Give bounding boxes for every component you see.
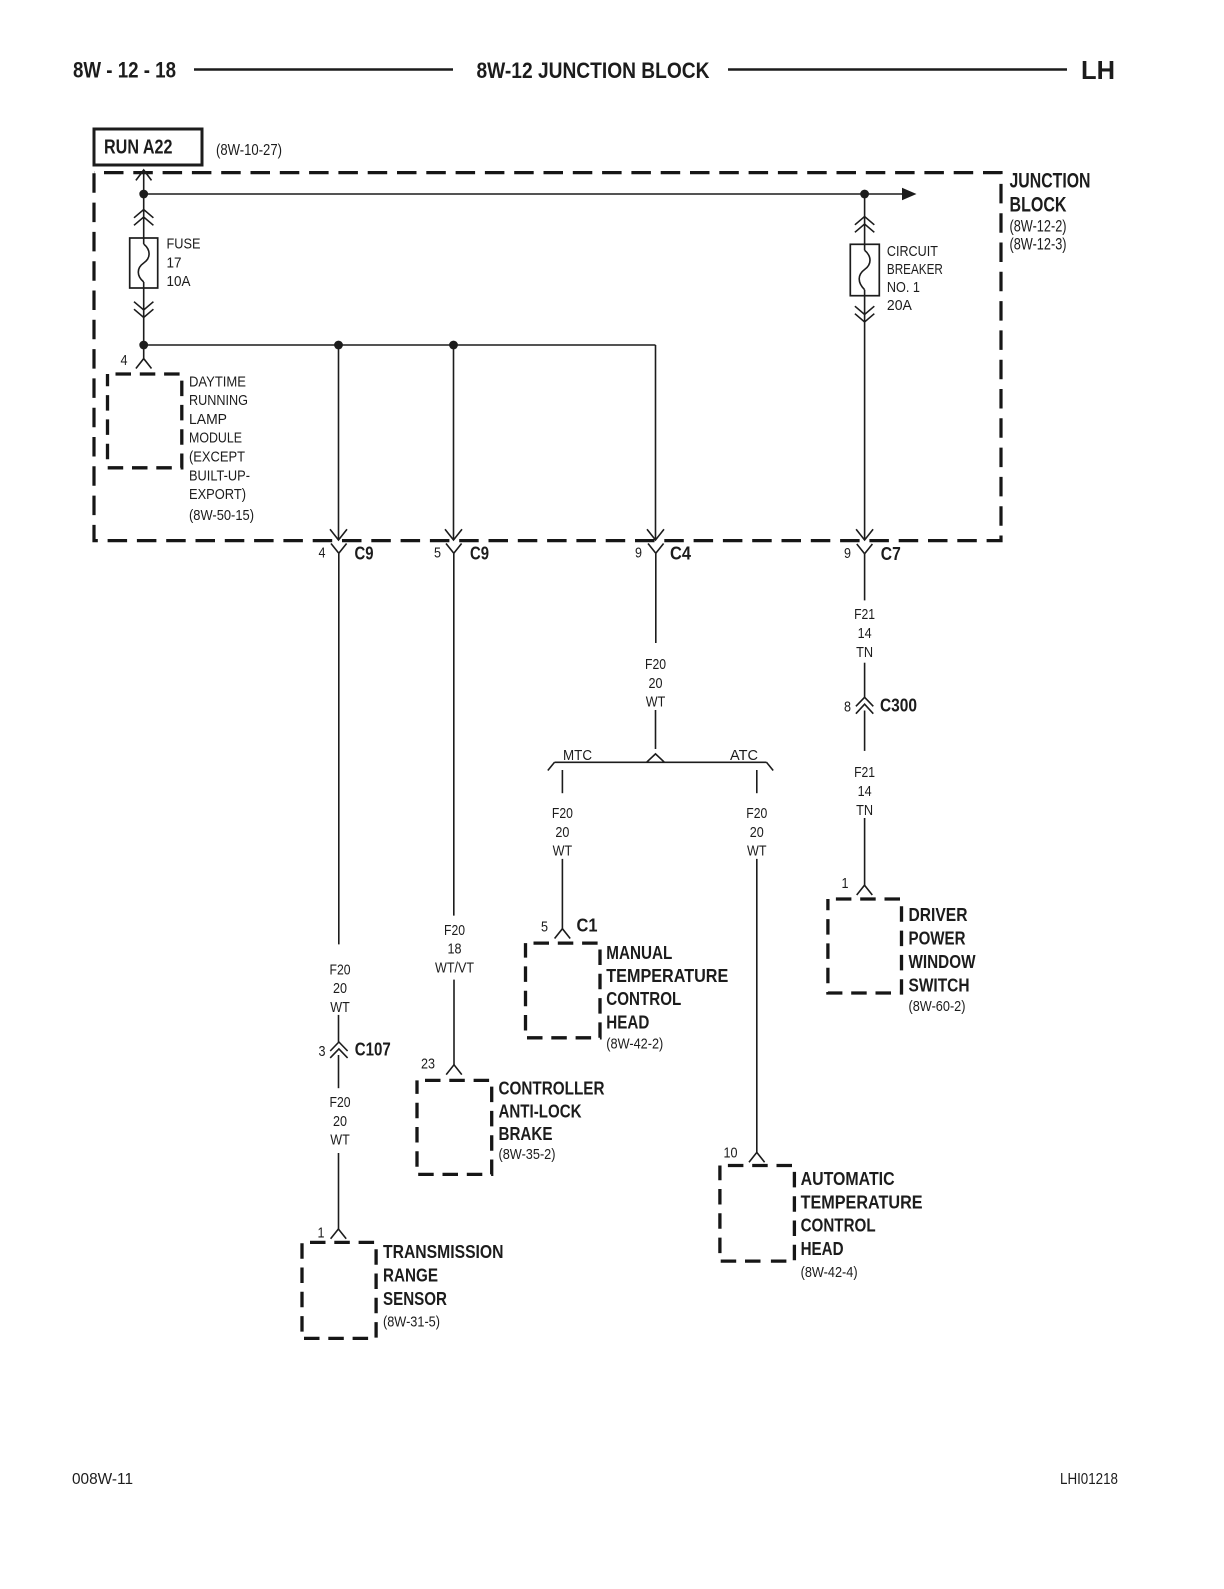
wire col2 below C107 (338, 1055, 340, 1088)
pin 10 caret into ATCH (724, 1145, 765, 1163)
svg-text:C107: C107 (355, 1039, 391, 1060)
svg-text:(8W-31-5): (8W-31-5) (383, 1313, 440, 1330)
svg-text:10: 10 (724, 1145, 738, 1162)
svg-text:WT/VT: WT/VT (435, 959, 474, 976)
svg-text:BRAKE: BRAKE (499, 1123, 553, 1144)
svg-text:JUNCTION: JUNCTION (1010, 169, 1091, 193)
svg-text:DAYTIME: DAYTIME (189, 373, 246, 390)
svg-text:F20: F20 (552, 805, 573, 822)
junction block label (1010, 169, 1091, 254)
svg-text:8W - 12 - 18: 8W - 12 - 18 (73, 58, 176, 83)
svg-text:4: 4 (121, 352, 128, 369)
svg-text:DRIVER: DRIVER (909, 904, 968, 925)
wire col4 drop inside block (647, 345, 664, 540)
wire label F20 20 WT (MTC) (552, 805, 573, 860)
svg-text:C1: C1 (577, 915, 598, 936)
svg-text:BLOCK: BLOCK (1010, 192, 1067, 216)
module DRL (daytime running lamp) (108, 373, 255, 524)
svg-text:NO. 1: NO. 1 (887, 279, 920, 296)
wire col3 into CAB (453, 980, 455, 1065)
svg-text:POWER: POWER (909, 928, 966, 949)
svg-text:20: 20 (333, 1113, 347, 1130)
node at fuse top (139, 190, 148, 199)
svg-text:MTC: MTC (563, 747, 592, 764)
svg-text:RUNNING: RUNNING (189, 392, 248, 409)
splice split MTC/ATC (548, 747, 773, 771)
svg-text:(8W-42-4): (8W-42-4) (801, 1264, 858, 1281)
header (73, 55, 1115, 85)
controller anti-lock brake (417, 1077, 605, 1174)
feed box RUN A22 (94, 129, 282, 165)
svg-text:WT: WT (553, 843, 573, 860)
wire col3 drop inside block (445, 345, 462, 540)
wire label F20 20 WT (col4) (645, 656, 666, 710)
wire col3 stem below C9 (453, 553, 455, 915)
svg-text:8: 8 (844, 699, 851, 716)
wire label F20 18 WT/VT (435, 922, 474, 977)
svg-text:RUN A22: RUN A22 (104, 136, 173, 159)
svg-text:20: 20 (555, 824, 569, 841)
automatic temperature control head (720, 1166, 923, 1281)
fuse 17 10A (130, 236, 201, 359)
wire MTC branch drop (561, 770, 563, 793)
svg-text:20A: 20A (887, 297, 912, 314)
wire col5 between label and C300 (864, 663, 866, 698)
svg-text:TEMPERATURE: TEMPERATURE (801, 1191, 923, 1212)
connector 4 C9 (319, 543, 374, 564)
svg-text:4: 4 (319, 545, 326, 562)
wire col2 between label and C107 (338, 1015, 340, 1042)
wire ATC into ATCH (756, 859, 758, 1153)
wire col2 into TRS (338, 1153, 340, 1229)
svg-text:1: 1 (842, 875, 849, 892)
svg-text:23: 23 (421, 1056, 435, 1073)
node col2 (334, 341, 343, 350)
wire label F21 14 TN (lower) (854, 764, 875, 819)
svg-text:LAMP: LAMP (189, 411, 227, 428)
svg-text:CIRCUIT: CIRCUIT (887, 243, 938, 260)
svg-text:TEMPERATURE: TEMPERATURE (606, 965, 728, 986)
svg-text:9: 9 (635, 545, 642, 562)
wire col2 drop inside block (330, 345, 347, 540)
svg-text:C9: C9 (470, 543, 489, 564)
connector 9 C7 (844, 543, 901, 564)
svg-text:(8W-50-15): (8W-50-15) (189, 507, 254, 524)
wire col2 stem below C9 (338, 553, 340, 944)
svg-text:1: 1 (318, 1225, 325, 1242)
svg-text:C4: C4 (670, 543, 692, 564)
pin 5 C1 caret (541, 915, 598, 939)
svg-text:HEAD: HEAD (801, 1238, 844, 1259)
svg-text:20: 20 (750, 824, 764, 841)
wire label F21 14 TN (upper) (854, 606, 875, 661)
footer (72, 1471, 1118, 1488)
wire col4 into splice (655, 710, 657, 749)
svg-text:17: 17 (167, 254, 182, 271)
fuse 17 top terminal chevrons (134, 210, 153, 226)
connector 3 C107 (in-line chevrons) (319, 1039, 391, 1061)
svg-text:(8W-35-2): (8W-35-2) (499, 1146, 556, 1163)
svg-text:LHI01218: LHI01218 (1060, 1471, 1118, 1488)
svg-text:8W-12 JUNCTION BLOCK: 8W-12 JUNCTION BLOCK (477, 58, 710, 83)
manual temperature control head (526, 942, 729, 1053)
svg-text:CONTROLLER: CONTROLLER (499, 1077, 605, 1098)
svg-text:5: 5 (434, 545, 441, 562)
svg-text:WT: WT (646, 693, 666, 710)
wire ATC branch drop (756, 770, 758, 793)
svg-text:F20: F20 (444, 922, 465, 939)
svg-text:F20: F20 (330, 961, 351, 978)
svg-text:14: 14 (858, 625, 872, 642)
svg-text:FUSE: FUSE (167, 236, 201, 253)
pin 1 caret into DPWS (842, 875, 873, 895)
svg-text:RANGE: RANGE (383, 1264, 438, 1285)
pin 23 and caret into CAB (421, 1056, 462, 1075)
connector 9 C4 (635, 543, 692, 564)
svg-text:CONTROL: CONTROL (801, 1215, 876, 1236)
svg-text:20: 20 (649, 675, 663, 692)
wire: run a22 vertical drop at x=143.7 (136, 170, 152, 244)
wire label F20 20 WT (col2 upper) (330, 961, 351, 1016)
wire col5 below C300 (864, 711, 866, 751)
svg-text:WT: WT (330, 999, 350, 1016)
svg-text:F21: F21 (854, 606, 875, 623)
svg-text:(8W-12-3): (8W-12-3) (1010, 236, 1067, 254)
svg-text:14: 14 (858, 783, 872, 800)
svg-text:TN: TN (856, 644, 873, 661)
wire col4 stem below C4 (655, 553, 657, 643)
pin 1 and caret into TRS (318, 1225, 347, 1242)
svg-text:18: 18 (448, 941, 462, 958)
wire MTC into C1 (561, 859, 563, 929)
wire label F20 20 WT (col2 lower) (330, 1094, 351, 1149)
svg-text:5: 5 (541, 919, 548, 936)
wire label F20 20 WT (ATC) (746, 805, 767, 860)
svg-text:10A: 10A (167, 273, 191, 290)
junction block dashed boundary (94, 173, 1001, 541)
svg-text:(8W-60-2): (8W-60-2) (909, 998, 966, 1015)
svg-text:TRANSMISSION: TRANSMISSION (383, 1241, 504, 1262)
svg-text:SWITCH: SWITCH (909, 975, 970, 996)
node above DRL (139, 341, 148, 350)
connector 8 C300 (844, 695, 917, 716)
wire: top bus from fuse node to breaker node (144, 188, 917, 200)
svg-text:C9: C9 (355, 543, 374, 564)
svg-text:SENSOR: SENSOR (383, 1288, 447, 1309)
wire breaker drop at x=864.6 (864, 194, 866, 250)
svg-text:ANTI-LOCK: ANTI-LOCK (499, 1100, 583, 1121)
svg-text:(EXCEPT: (EXCEPT (189, 449, 245, 466)
svg-text:WT: WT (747, 843, 767, 860)
svg-text:AUTOMATIC: AUTOMATIC (801, 1168, 895, 1189)
svg-text:C7: C7 (881, 543, 901, 564)
svg-text:3: 3 (319, 1043, 326, 1060)
driver power window switch (828, 899, 976, 1015)
svg-text:WT: WT (330, 1132, 350, 1149)
svg-text:008W-11: 008W-11 (72, 1471, 133, 1488)
svg-text:HEAD: HEAD (606, 1011, 649, 1032)
svg-text:BUILT-UP-: BUILT-UP- (189, 467, 250, 484)
node at breaker top (860, 190, 869, 199)
svg-text:TN: TN (856, 802, 873, 819)
svg-text:9: 9 (844, 545, 851, 562)
svg-text:(8W-10-27): (8W-10-27) (216, 142, 282, 159)
wire col5 stem below C7 (864, 554, 866, 601)
breaker bottom terminals (855, 306, 874, 540)
breaker top terminals (855, 217, 874, 233)
svg-text:F20: F20 (645, 656, 666, 673)
svg-text:ATC: ATC (730, 747, 758, 764)
fuse bottom terminals (chevrons down) (134, 302, 153, 318)
svg-text:EXPORT): EXPORT) (189, 486, 246, 503)
svg-text:C300: C300 (880, 695, 917, 716)
connector 5 C9 (434, 543, 489, 564)
node col3 (449, 341, 458, 350)
svg-text:CONTROL: CONTROL (606, 988, 681, 1009)
wire col5 into DPWS (864, 818, 866, 885)
svg-text:WINDOW: WINDOW (909, 951, 976, 972)
svg-text:LH: LH (1081, 55, 1115, 85)
svg-text:20: 20 (333, 980, 347, 997)
svg-text:F20: F20 (746, 805, 767, 822)
wire: lower bus inside junction block (144, 344, 656, 346)
svg-text:F20: F20 (330, 1094, 351, 1111)
svg-text:BREAKER: BREAKER (887, 261, 943, 278)
svg-text:(8W-42-2): (8W-42-2) (606, 1035, 663, 1052)
svg-text:F21: F21 (854, 764, 875, 781)
svg-text:MANUAL: MANUAL (606, 942, 672, 963)
svg-text:MODULE: MODULE (189, 430, 242, 447)
svg-text:(8W-12-2): (8W-12-2) (1010, 218, 1067, 236)
circuit breaker no. 1 20A (850, 243, 943, 540)
transmission range sensor (302, 1241, 504, 1339)
connector caret into DRL (136, 359, 152, 369)
